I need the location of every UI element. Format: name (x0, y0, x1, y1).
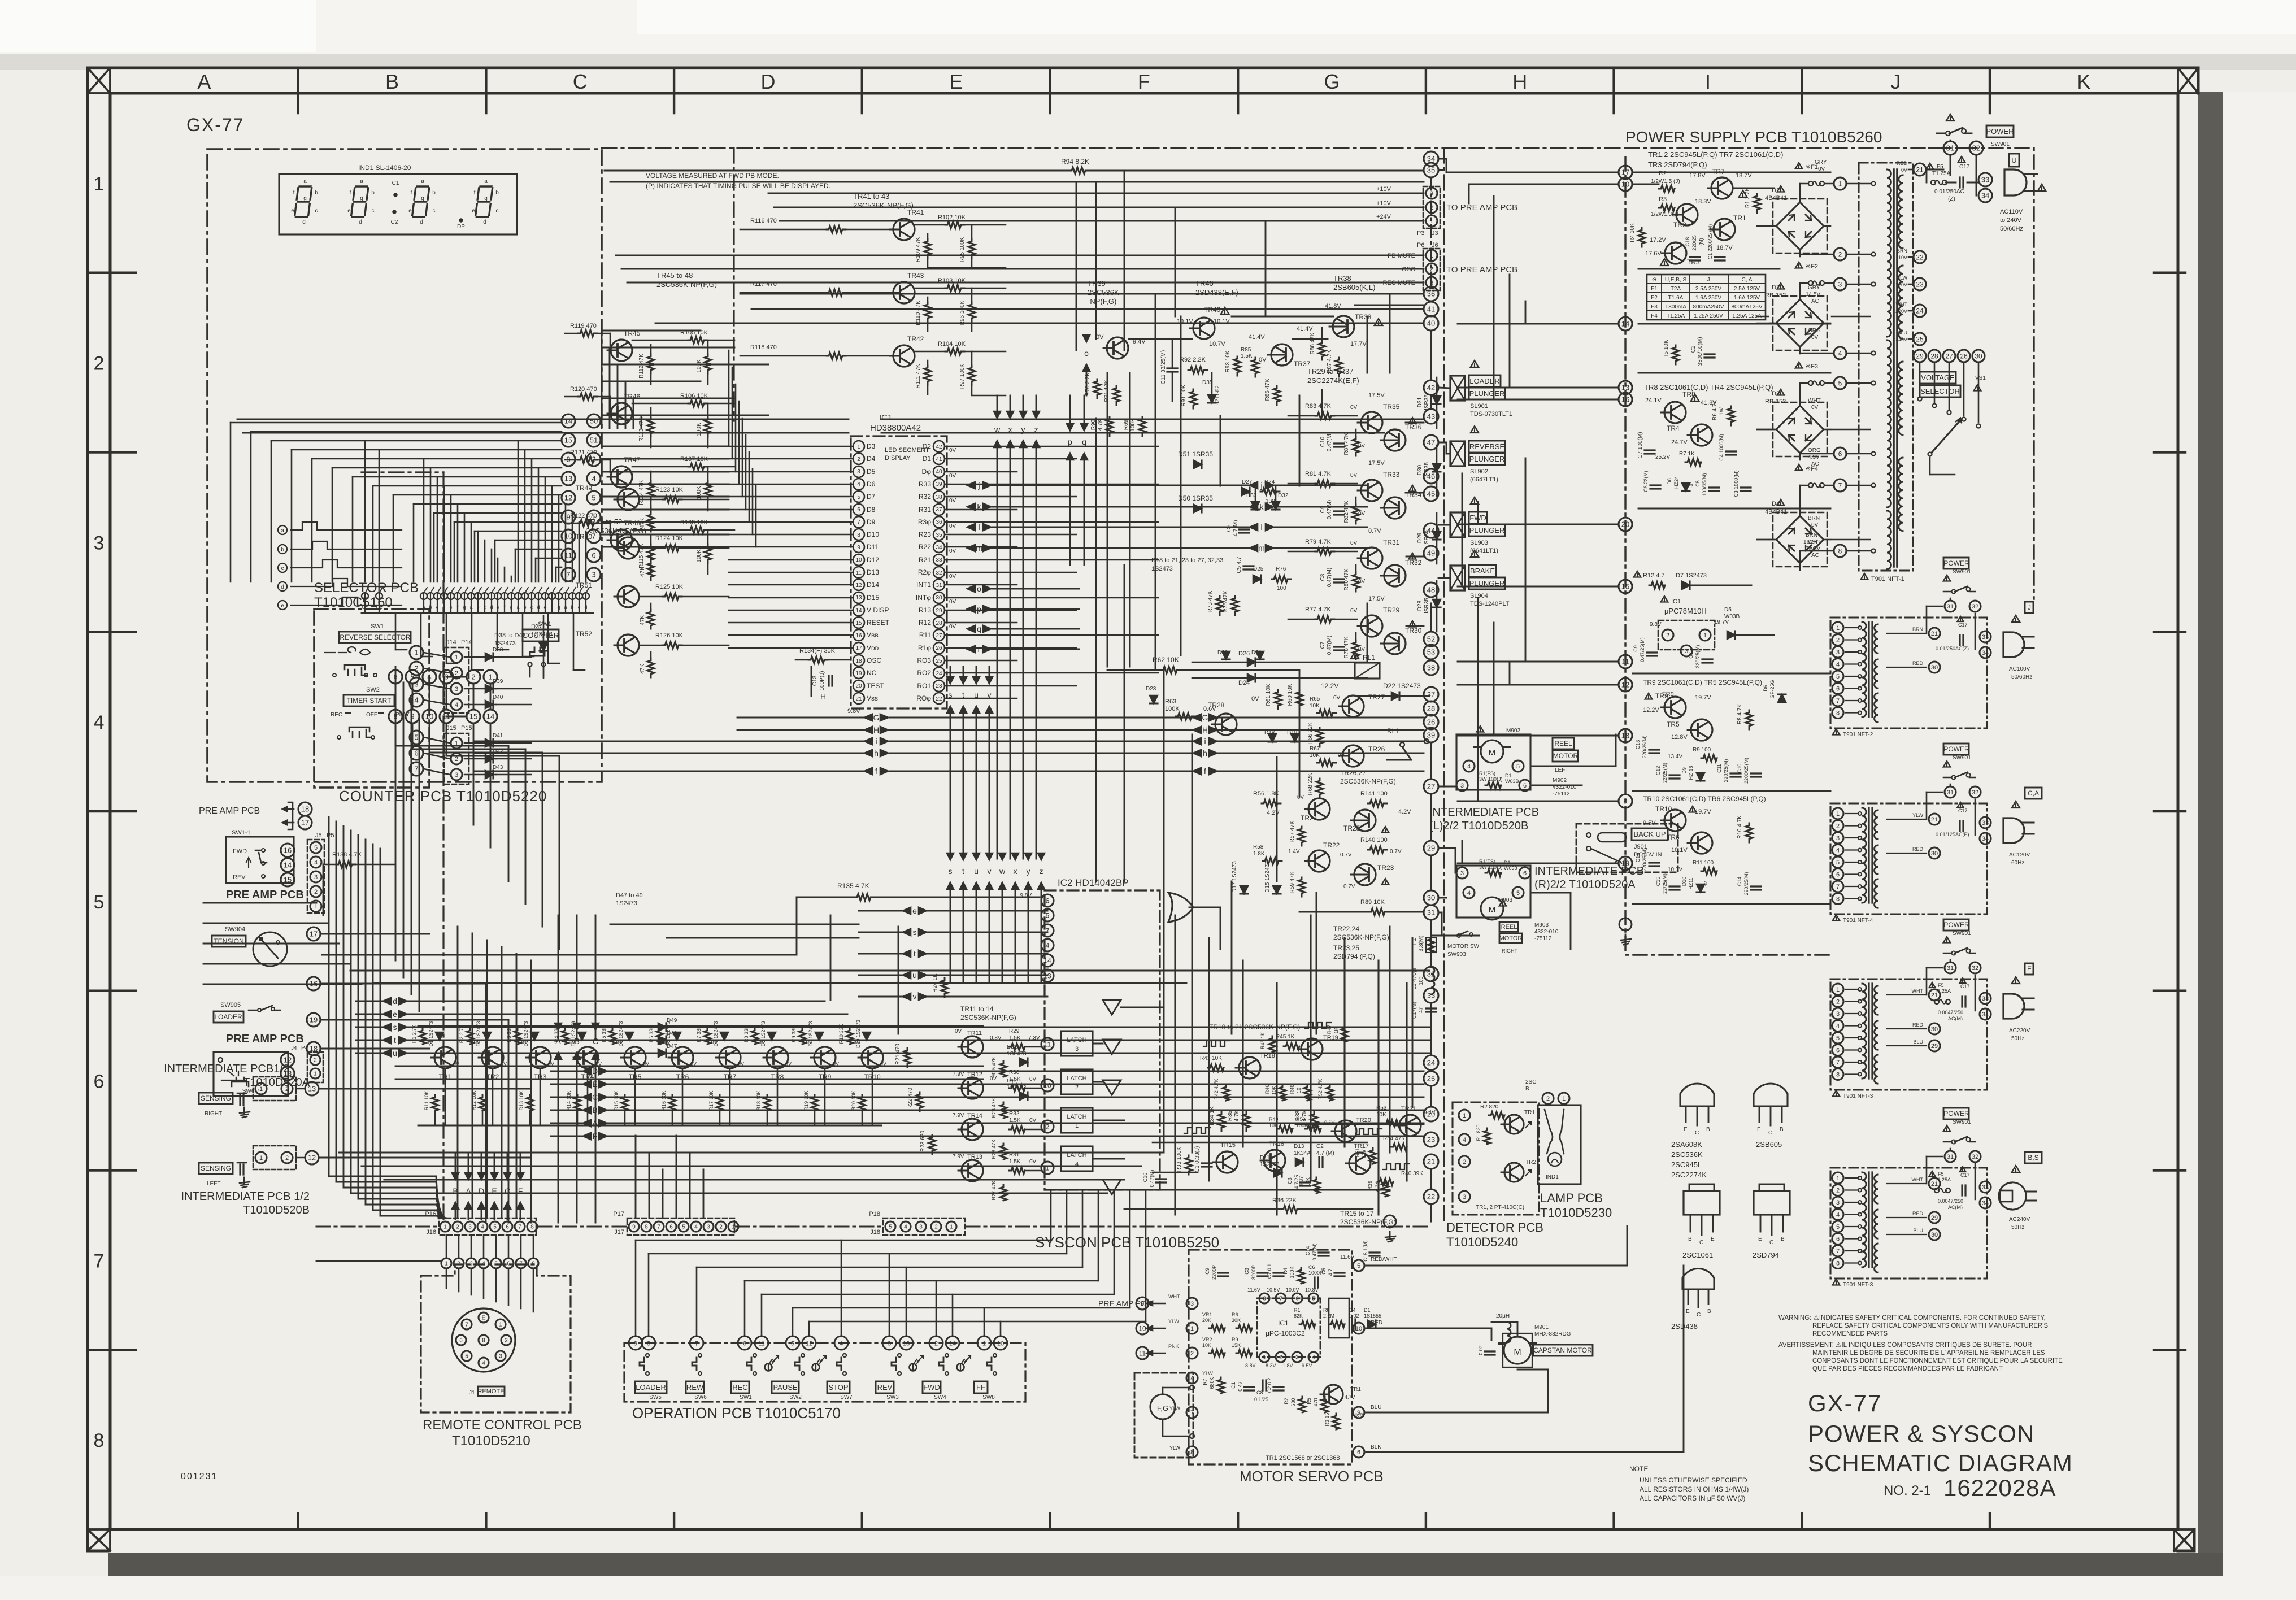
svg-text:M902: M902 (1506, 728, 1520, 734)
svg-text:D39: D39 (493, 679, 503, 685)
svg-text:C11: C11 (1716, 764, 1722, 773)
svg-text:LATCH: LATCH (1067, 1037, 1086, 1044)
svg-text:680: 680 (1290, 1398, 1296, 1406)
svg-text:5: 5 (592, 494, 595, 502)
svg-text:8: 8 (1836, 1260, 1840, 1267)
svg-text:32: 32 (1972, 603, 1978, 610)
svg-text:PLUNGER: PLUNGER (1469, 526, 1505, 534)
svg-text:t: t (394, 1036, 396, 1045)
svg-text:2: 2 (457, 1261, 460, 1267)
svg-text:10: 10 (1621, 180, 1629, 189)
svg-text:SELECTOR PCB: SELECTOR PCB (314, 580, 419, 595)
transformer unit T901 NFT-3 outline (1830, 1168, 1987, 1279)
svg-text:IC1: IC1 (879, 413, 892, 423)
svg-text:R134(F) 30K: R134(F) 30K (799, 647, 836, 654)
svg-text:22/25(M): 22/25(M) (1662, 873, 1668, 894)
svg-text:F5: F5 (1938, 1171, 1944, 1177)
transformer T901 NFT-3 coils (1862, 984, 1866, 1079)
svg-text:C,A: C,A (2028, 789, 2039, 797)
wire 36 41 40 buses (740, 293, 1424, 295)
svg-text:SW904: SW904 (225, 926, 245, 933)
svg-text:R18 10K: R18 10K (756, 1090, 762, 1110)
svg-text:13: 13 (903, 1341, 910, 1347)
svg-text:-3: -3 (1689, 484, 1694, 488)
svg-text:10.7V: 10.7V (1668, 867, 1682, 873)
svg-text:C2: C2 (391, 219, 398, 225)
svg-text:21: 21 (1427, 1158, 1435, 1166)
svg-text:g: g (463, 605, 466, 610)
svg-text:c: c (530, 605, 533, 610)
svg-text:IND1: IND1 (1546, 1174, 1559, 1180)
svg-text:R30: R30 (1009, 1069, 1020, 1076)
transistor TR6 (668, 1047, 693, 1068)
svg-text:33: 33 (1982, 1184, 1989, 1191)
svg-text:21: 21 (855, 696, 862, 702)
svg-text:h: h (874, 749, 879, 758)
svg-text:24.7V: 24.7V (1671, 439, 1688, 446)
transistor TR35 (1358, 412, 1382, 433)
svg-text:25: 25 (936, 658, 942, 664)
svg-text:0V: 0V (1350, 472, 1358, 479)
svg-text:D38: D38 (493, 647, 503, 653)
svg-text:YLW: YLW (1168, 1319, 1179, 1324)
svg-text:C18: C18 (1685, 237, 1690, 247)
svg-text:R57 47K: R57 47K (1289, 820, 1295, 842)
svg-text:7: 7 (465, 1322, 468, 1328)
svg-text:22: 22 (1916, 253, 1924, 261)
svg-text:31: 31 (1946, 144, 1954, 153)
svg-text:REEL: REEL (1501, 924, 1517, 931)
svg-text:b: b (432, 190, 436, 196)
svg-text:R89 10K: R89 10K (1360, 899, 1385, 906)
svg-text:5: 5 (791, 1341, 794, 1347)
svg-text:6: 6 (1836, 685, 1840, 692)
svg-text:Dφ: Dφ (922, 468, 932, 476)
svg-text:12: 12 (806, 1341, 812, 1347)
warning text english (1778, 1315, 2063, 1372)
svg-text:R77 4.7K: R77 4.7K (1305, 606, 1332, 613)
transistor TR7 (716, 1047, 741, 1068)
svg-text:R3: R3 (1659, 196, 1667, 203)
svg-text:2: 2 (285, 1086, 289, 1093)
wire o arrow vertical (1083, 335, 1090, 342)
wire syscon right boundary (1443, 148, 1445, 1221)
connector NFT-1 primary pins (1834, 177, 1846, 190)
svg-text:RED: RED (1912, 660, 1924, 666)
svg-text:RED: RED (1912, 1211, 1924, 1216)
wire left lower buses (395, 1027, 1429, 1079)
svg-text:s: s (913, 928, 917, 937)
svg-text:30: 30 (936, 595, 942, 601)
svg-text:120V: 120V (1895, 282, 1907, 288)
svg-text:31: 31 (1947, 603, 1954, 610)
svg-text:9.8V: 9.8V (1020, 893, 1032, 899)
transistor TR12 (958, 1077, 983, 1099)
svg-text:C13: C13 (1635, 740, 1641, 750)
svg-text:0V: 0V (643, 1061, 649, 1067)
svg-text:E: E (2027, 965, 2032, 973)
svg-text:15: 15 (855, 620, 862, 627)
svg-text:30K: 30K (1232, 1318, 1241, 1323)
svg-text:c: c (578, 605, 581, 610)
svg-text:4: 4 (314, 859, 318, 866)
svg-text:1.8K: 1.8K (1253, 851, 1265, 857)
svg-text:LOADER: LOADER (1469, 377, 1499, 385)
svg-text:C15 1(M): C15 1(M) (1363, 1240, 1368, 1262)
svg-text:0V: 0V (738, 1061, 744, 1067)
svg-text:100K: 100K (1165, 706, 1180, 712)
svg-text:R54 47K: R54 47K (1383, 1136, 1405, 1142)
svg-text:14: 14 (486, 712, 494, 721)
svg-text:D12: D12 (1007, 1078, 1017, 1084)
svg-text:2200/25(M): 2200/25(M) (1743, 758, 1749, 784)
svg-text:C3: C3 (1244, 1268, 1250, 1275)
svg-text:40: 40 (936, 469, 942, 475)
svg-text:31: 31 (936, 582, 942, 589)
svg-text:6: 6 (1523, 782, 1527, 789)
svg-text:YLW: YLW (1897, 275, 1907, 281)
svg-text:C16: C16 (1635, 853, 1641, 863)
svg-text:12.8V: 12.8V (1671, 734, 1688, 741)
svg-text:WHT: WHT (1912, 988, 1924, 994)
svg-text:33: 33 (936, 557, 942, 563)
svg-text:47K: 47K (640, 518, 646, 528)
svg-text:r: r (978, 645, 981, 654)
wire servo nets (1366, 1265, 1627, 1267)
svg-text:c: c (372, 208, 375, 214)
svg-text:R22: R22 (919, 543, 931, 551)
svg-text:2: 2 (1836, 637, 1840, 644)
svg-text:D18 to 21, 23 to 27, 32,33: D18 to 21, 23 to 27, 32,33 (1151, 557, 1223, 564)
svg-text:C11 33/25(M): C11 33/25(M) (1160, 350, 1167, 384)
svg-text:2SD794: 2SD794 (1753, 1251, 1779, 1259)
svg-text:0.47(M): 0.47(M) (1327, 568, 1333, 587)
diode D33 D32 (1251, 502, 1259, 510)
svg-text:g: g (484, 195, 488, 202)
svg-text:1.8V: 1.8V (1282, 1363, 1293, 1368)
svg-text:6: 6 (1836, 1047, 1840, 1054)
svg-text:REV: REV (233, 874, 246, 881)
connector 33 34 main (1978, 173, 1992, 186)
svg-text:TEST: TEST (867, 682, 884, 690)
svg-text:8: 8 (532, 1261, 535, 1267)
svg-text:1: 1 (1703, 632, 1707, 639)
connector T901 NFT-3 pins 1-8 (1832, 984, 1843, 995)
transistor TR13 (958, 1160, 983, 1181)
transistor TR33 (1358, 480, 1382, 501)
svg-text:15: 15 (284, 876, 292, 884)
svg-text:50Hz: 50Hz (2011, 1224, 2024, 1231)
bridge rectifier D4 4B4B41 (1773, 512, 1827, 567)
svg-text:J15: J15 (446, 725, 456, 732)
svg-text:C1: C1 (392, 180, 399, 186)
svg-text:F: F (1138, 70, 1150, 93)
svg-text:d: d (420, 219, 423, 225)
svg-text:7: 7 (695, 1341, 698, 1347)
wire latch outputs (1093, 1043, 1103, 1045)
svg-text:R6 33K: R6 33K (649, 1025, 654, 1042)
svg-text:2SD438(E,F): 2SD438(E,F) (1195, 288, 1238, 297)
fuse table (1647, 275, 1766, 320)
svg-text:3.3(M): 3.3(M) (1418, 936, 1424, 952)
svg-text:MAINTENIR LE DEGRE DE SECURITE: MAINTENIR LE DEGRE DE SECURITE DE L`APPA… (1812, 1350, 2045, 1356)
svg-text:2: 2 (719, 1224, 723, 1231)
svg-text:1: 1 (1562, 1095, 1566, 1102)
svg-text:18.7V: 18.7V (1736, 172, 1752, 179)
svg-text:0.01/250AC: 0.01/250AC (1934, 189, 1964, 195)
svg-text:c: c (496, 208, 499, 214)
svg-text:T1.6A: T1.6A (1668, 295, 1684, 301)
svg-text:34: 34 (1981, 192, 1989, 200)
wire D E C B A F tags (583, 1068, 591, 1075)
squarewave icon mid (1356, 1129, 1382, 1134)
svg-text:17: 17 (1621, 168, 1629, 177)
svg-text:Vss: Vss (867, 694, 878, 702)
svg-text:D9 1S2473: D9 1S2473 (808, 1021, 814, 1046)
plunger LOADER SL901 (1450, 376, 1465, 401)
svg-text:32: 32 (1972, 965, 1978, 972)
svg-text:l: l (978, 523, 980, 532)
svg-text:D14: D14 (867, 581, 879, 589)
svg-text:D32: D32 (1278, 493, 1289, 499)
svg-text:I: I (1705, 70, 1711, 93)
svg-text:B: B (1780, 1127, 1784, 1133)
svg-text:F2: F2 (1651, 295, 1658, 301)
svg-text:1: 1 (1430, 253, 1433, 259)
svg-text:TR46: TR46 (624, 393, 641, 401)
svg-text:R59 47K: R59 47K (1289, 871, 1295, 893)
svg-text:HZ11: HZ11 (1688, 877, 1694, 889)
svg-text:0.47/25(M): 0.47/25(M) (1640, 637, 1645, 662)
selector PCB outline T1010C5160 (314, 609, 429, 788)
svg-text:P5: P5 (327, 832, 334, 839)
svg-text:5: 5 (1836, 673, 1840, 680)
svg-text:82K: 82K (1294, 1313, 1303, 1319)
svg-text:R41 10K: R41 10K (1200, 1055, 1222, 1062)
switch row operation (640, 1358, 644, 1370)
svg-text:q: q (1082, 437, 1086, 446)
svg-text:36: 36 (936, 519, 942, 525)
svg-text:TR38: TR38 (1333, 274, 1351, 282)
svg-text:8: 8 (482, 1338, 485, 1344)
svg-text:AC110V: AC110V (2000, 208, 2023, 215)
svg-text:TR26: TR26 (1368, 745, 1385, 753)
svg-text:41.4V: 41.4V (1249, 334, 1265, 341)
svg-text:C10: C10 (1320, 436, 1326, 447)
svg-text:R67: R67 (1310, 746, 1320, 752)
svg-text:R4: R4 (1282, 1268, 1288, 1275)
svg-text:30: 30 (1931, 1232, 1938, 1238)
svg-text:4: 4 (1312, 1355, 1315, 1361)
svg-text:VR1: VR1 (1202, 1312, 1212, 1318)
svg-text:TR37: TR37 (1294, 360, 1311, 368)
svg-text:R5: R5 (1306, 1398, 1312, 1405)
label VOLTAGE SELECTOR VS1 (1920, 372, 1956, 384)
svg-text:22: 22 (1427, 1193, 1435, 1201)
svg-text:2: 2 (314, 889, 318, 895)
svg-text:5: 5 (1836, 1224, 1840, 1231)
svg-text:TR5: TR5 (1667, 720, 1680, 728)
svg-text:2SB605(K,L): 2SB605(K,L) (1333, 283, 1375, 292)
svg-text:220/25: 220/25 (1691, 235, 1697, 251)
svg-text:41: 41 (936, 456, 942, 463)
svg-text:9.4V: 9.4V (1424, 1110, 1436, 1116)
svg-text:7: 7 (566, 571, 570, 579)
svg-text:D3 1S2473: D3 1S2473 (523, 1021, 529, 1046)
svg-text:a: a (421, 179, 424, 185)
svg-text:RO3: RO3 (917, 656, 931, 664)
svg-text:C, A: C, A (1742, 277, 1753, 283)
wire counter outgoing (395, 684, 559, 768)
svg-text:TR1, 2 PT-410C(C): TR1, 2 PT-410C(C) (1476, 1205, 1524, 1211)
svg-text:POWER: POWER (1943, 1110, 1969, 1118)
svg-text:TR28: TR28 (1208, 701, 1225, 709)
svg-text:R6 4.7K: R6 4.7K (1712, 400, 1718, 420)
svg-text:g: g (510, 605, 512, 610)
svg-text:v: v (913, 992, 917, 1001)
svg-text:23: 23 (1427, 1136, 1435, 1144)
svg-text:1: 1 (259, 1086, 263, 1093)
svg-text:R4 33K: R4 33K (554, 1025, 559, 1042)
svg-text:D8 1S2473: D8 1S2473 (760, 1021, 766, 1046)
svg-text:20μH: 20μH (1496, 1313, 1510, 1319)
svg-text:10K: 10K (1310, 703, 1320, 709)
svg-text:s: s (949, 690, 953, 699)
svg-text:1.5K: 1.5K (1009, 1118, 1021, 1124)
svg-text:D41: D41 (493, 733, 503, 739)
wire operation fan (636, 1240, 1001, 1336)
svg-text:TR14: TR14 (967, 1112, 982, 1119)
svg-text:50/60Hz: 50/60Hz (2011, 674, 2032, 680)
svg-text:D30: D30 (1417, 464, 1423, 475)
svg-text:LED SEGMENT: LED SEGMENT (885, 447, 929, 454)
svg-text:R3φ: R3φ (918, 518, 931, 526)
svg-text:R23 620: R23 620 (920, 1131, 926, 1152)
svg-text:100K: 100K (1289, 1266, 1295, 1278)
transistor TR25 (1351, 810, 1376, 831)
reel motor right M903 (1456, 867, 1468, 879)
svg-text:OFF: OFF (366, 712, 377, 718)
svg-text:R70 2.2K: R70 2.2K (1085, 372, 1091, 396)
wire long bus 766 (243, 432, 849, 434)
svg-text:REW: REW (686, 1383, 704, 1392)
svg-text:TO PRE AMP PCB: TO PRE AMP PCB (1446, 203, 1517, 212)
svg-text:34: 34 (1427, 155, 1435, 163)
svg-text:C: C (505, 1186, 510, 1195)
svg-text:470: 470 (1313, 1398, 1319, 1406)
svg-text:TR26,27: TR26,27 (1340, 769, 1366, 777)
svg-text:0.7V: 0.7V (1343, 884, 1355, 890)
svg-text:0V: 0V (1811, 522, 1819, 528)
svg-text:0V: 0V (1350, 405, 1358, 411)
svg-text:WHT: WHT (1808, 398, 1821, 404)
svg-text:D22 1S2473: D22 1S2473 (1383, 682, 1421, 690)
svg-text:220/25(M): 220/25(M) (1642, 735, 1647, 758)
svg-text:1: 1 (443, 1224, 447, 1231)
svg-text:R12: R12 (919, 619, 931, 627)
svg-text:20K: 20K (1202, 1318, 1211, 1323)
svg-text:2: 2 (505, 1338, 508, 1344)
svg-text:POWER & SYSCON: POWER & SYSCON (1808, 1420, 2034, 1447)
svg-text:C: C (1697, 1312, 1701, 1318)
svg-text:C4: C4 (1349, 1307, 1356, 1313)
svg-text:RL1: RL1 (1363, 654, 1375, 662)
svg-text:11: 11 (1621, 658, 1629, 666)
wire p q arrows vertical (1069, 395, 1071, 429)
svg-text:0V: 0V (548, 1061, 554, 1067)
svg-text:37: 37 (1427, 690, 1435, 699)
svg-text:22/25(M): 22/25(M) (1662, 763, 1668, 783)
transistor TR20 (1332, 1120, 1356, 1142)
svg-text:i: i (875, 737, 877, 746)
svg-text:D15 1S2473: D15 1S2473 (1264, 861, 1271, 893)
remote DIN connector J1 (452, 1308, 515, 1372)
transistor TR2 (1673, 204, 1698, 225)
svg-text:R20 10K: R20 10K (851, 1090, 856, 1110)
svg-text:C7: C7 (1320, 641, 1326, 649)
svg-text:T1010D5210: T1010D5210 (452, 1433, 530, 1449)
transistor TR27 (1339, 695, 1364, 717)
svg-text:SW4: SW4 (934, 1394, 946, 1401)
svg-text:D15: D15 (867, 594, 879, 602)
label CAPSTAN MOTOR (1533, 1345, 1593, 1356)
svg-text:5: 5 (465, 1354, 468, 1360)
svg-text:8: 8 (647, 1341, 650, 1347)
svg-text:4: 4 (1836, 661, 1840, 668)
svg-text:R2 2.7K: R2 2.7K (459, 1025, 464, 1044)
svg-text:G: G (873, 713, 880, 722)
svg-text:F5: F5 (1938, 982, 1944, 988)
svg-text:42: 42 (1427, 384, 1435, 392)
svg-text:1S2473: 1S2473 (494, 640, 516, 647)
connector T901 NFT-2 pins 1-8 (1832, 622, 1843, 633)
svg-text:e: e (291, 208, 294, 214)
svg-text:C5: C5 (1695, 480, 1701, 487)
svg-text:1S2473: 1S2473 (616, 900, 637, 907)
svg-text:R9 100: R9 100 (1693, 747, 1711, 753)
svg-text:T1.25A: T1.25A (1667, 313, 1685, 319)
svg-text:10: 10 (997, 1341, 1004, 1347)
svg-text:800mA125V: 800mA125V (1731, 304, 1762, 310)
svg-text:YLW: YLW (1169, 1445, 1180, 1451)
svg-text:C: C (592, 1093, 598, 1102)
svg-text:R109 47K: R109 47K (915, 237, 921, 262)
svg-text:C: C (593, 1037, 599, 1046)
svg-text:R96 100K: R96 100K (959, 300, 966, 325)
svg-text:TO PRE AMP PCB: TO PRE AMP PCB (1446, 265, 1517, 275)
wire d e s t u tags (383, 998, 391, 1005)
svg-text:25: 25 (1916, 335, 1924, 343)
svg-text:REVERSE SELECTOR: REVERSE SELECTOR (340, 633, 410, 641)
svg-text:TIMER START: TIMER START (347, 697, 392, 705)
svg-text:3: 3 (592, 571, 595, 579)
svg-text:20: 20 (1621, 520, 1629, 529)
svg-text:ALL RESISTORS IN OHMS 1/4W(J): ALL RESISTORS IN OHMS 1/4W(J) (1640, 1485, 1749, 1493)
svg-text:1.5K: 1.5K (1009, 1035, 1021, 1041)
svg-text:4.2V: 4.2V (1398, 808, 1411, 815)
svg-text:19: 19 (1621, 859, 1629, 868)
svg-text:TR12: TR12 (967, 1071, 982, 1078)
svg-text:R58: R58 (1253, 844, 1264, 850)
svg-text:3: 3 (1460, 782, 1464, 789)
svg-text:9: 9 (1623, 797, 1627, 806)
svg-text:3: 3 (414, 680, 418, 689)
svg-text:R60 10K: R60 10K (1287, 684, 1293, 706)
remote control PCB outline (421, 1264, 571, 1412)
svg-text:4: 4 (94, 712, 105, 733)
svg-text:TR1: TR1 (1733, 214, 1746, 222)
svg-text:p: p (1068, 437, 1072, 446)
